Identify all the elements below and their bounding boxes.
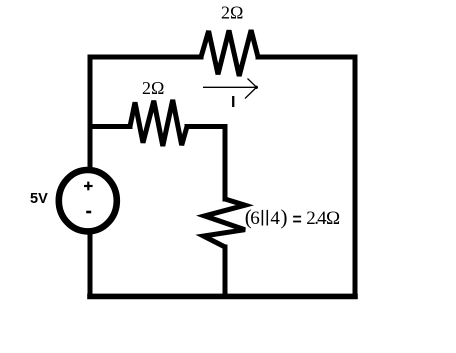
label equals sign — [293, 217, 301, 222]
wire: middle branch, left segment — [90, 124, 130, 129]
label (6||4)=2.4ohm — [245, 205, 340, 229]
voltage source V1 5V (circle) — [59, 170, 117, 231]
wire: top side, left segment — [90, 55, 201, 60]
wire: top side, right segment — [258, 55, 355, 60]
minus sign inside source — [86, 211, 91, 214]
svg-text:): ) — [281, 205, 288, 229]
plus sign inside source — [84, 182, 93, 191]
svg-text:2Ω: 2Ω — [221, 3, 243, 23]
wire: left side upper (top corner to source top) — [88, 57, 93, 168]
wire: bottom side — [90, 294, 355, 300]
wire: right side vertical — [353, 57, 358, 296]
resistor R-parallel 2.4ohm (vertical zigzag) — [204, 199, 246, 247]
resistor R-mid 2ohm (zigzag) — [130, 100, 187, 146]
label parallel bars in (6||4) — [262, 210, 267, 226]
svg-text:2Ω: 2Ω — [142, 78, 164, 98]
wire: left side lower (source bottom to bottom corner) — [88, 233, 93, 296]
current arrow I (shaft) — [203, 86, 257, 88]
svg-text:6: 6 — [250, 208, 259, 229]
svg-text:Ω: Ω — [326, 208, 340, 229]
wire: middle branch, right segment — [187, 124, 225, 129]
wire: inner vertical upper — [223, 127, 228, 200]
current arrow I (tip dot) — [255, 86, 258, 89]
wire: inner vertical lower — [223, 247, 228, 296]
current arrow I (head) — [245, 79, 257, 99]
svg-text:4: 4 — [270, 208, 280, 229]
svg-text:5V: 5V — [30, 191, 48, 207]
svg-text:I: I — [231, 94, 235, 111]
resistor R-top 2ohm (zigzag) — [201, 30, 258, 76]
